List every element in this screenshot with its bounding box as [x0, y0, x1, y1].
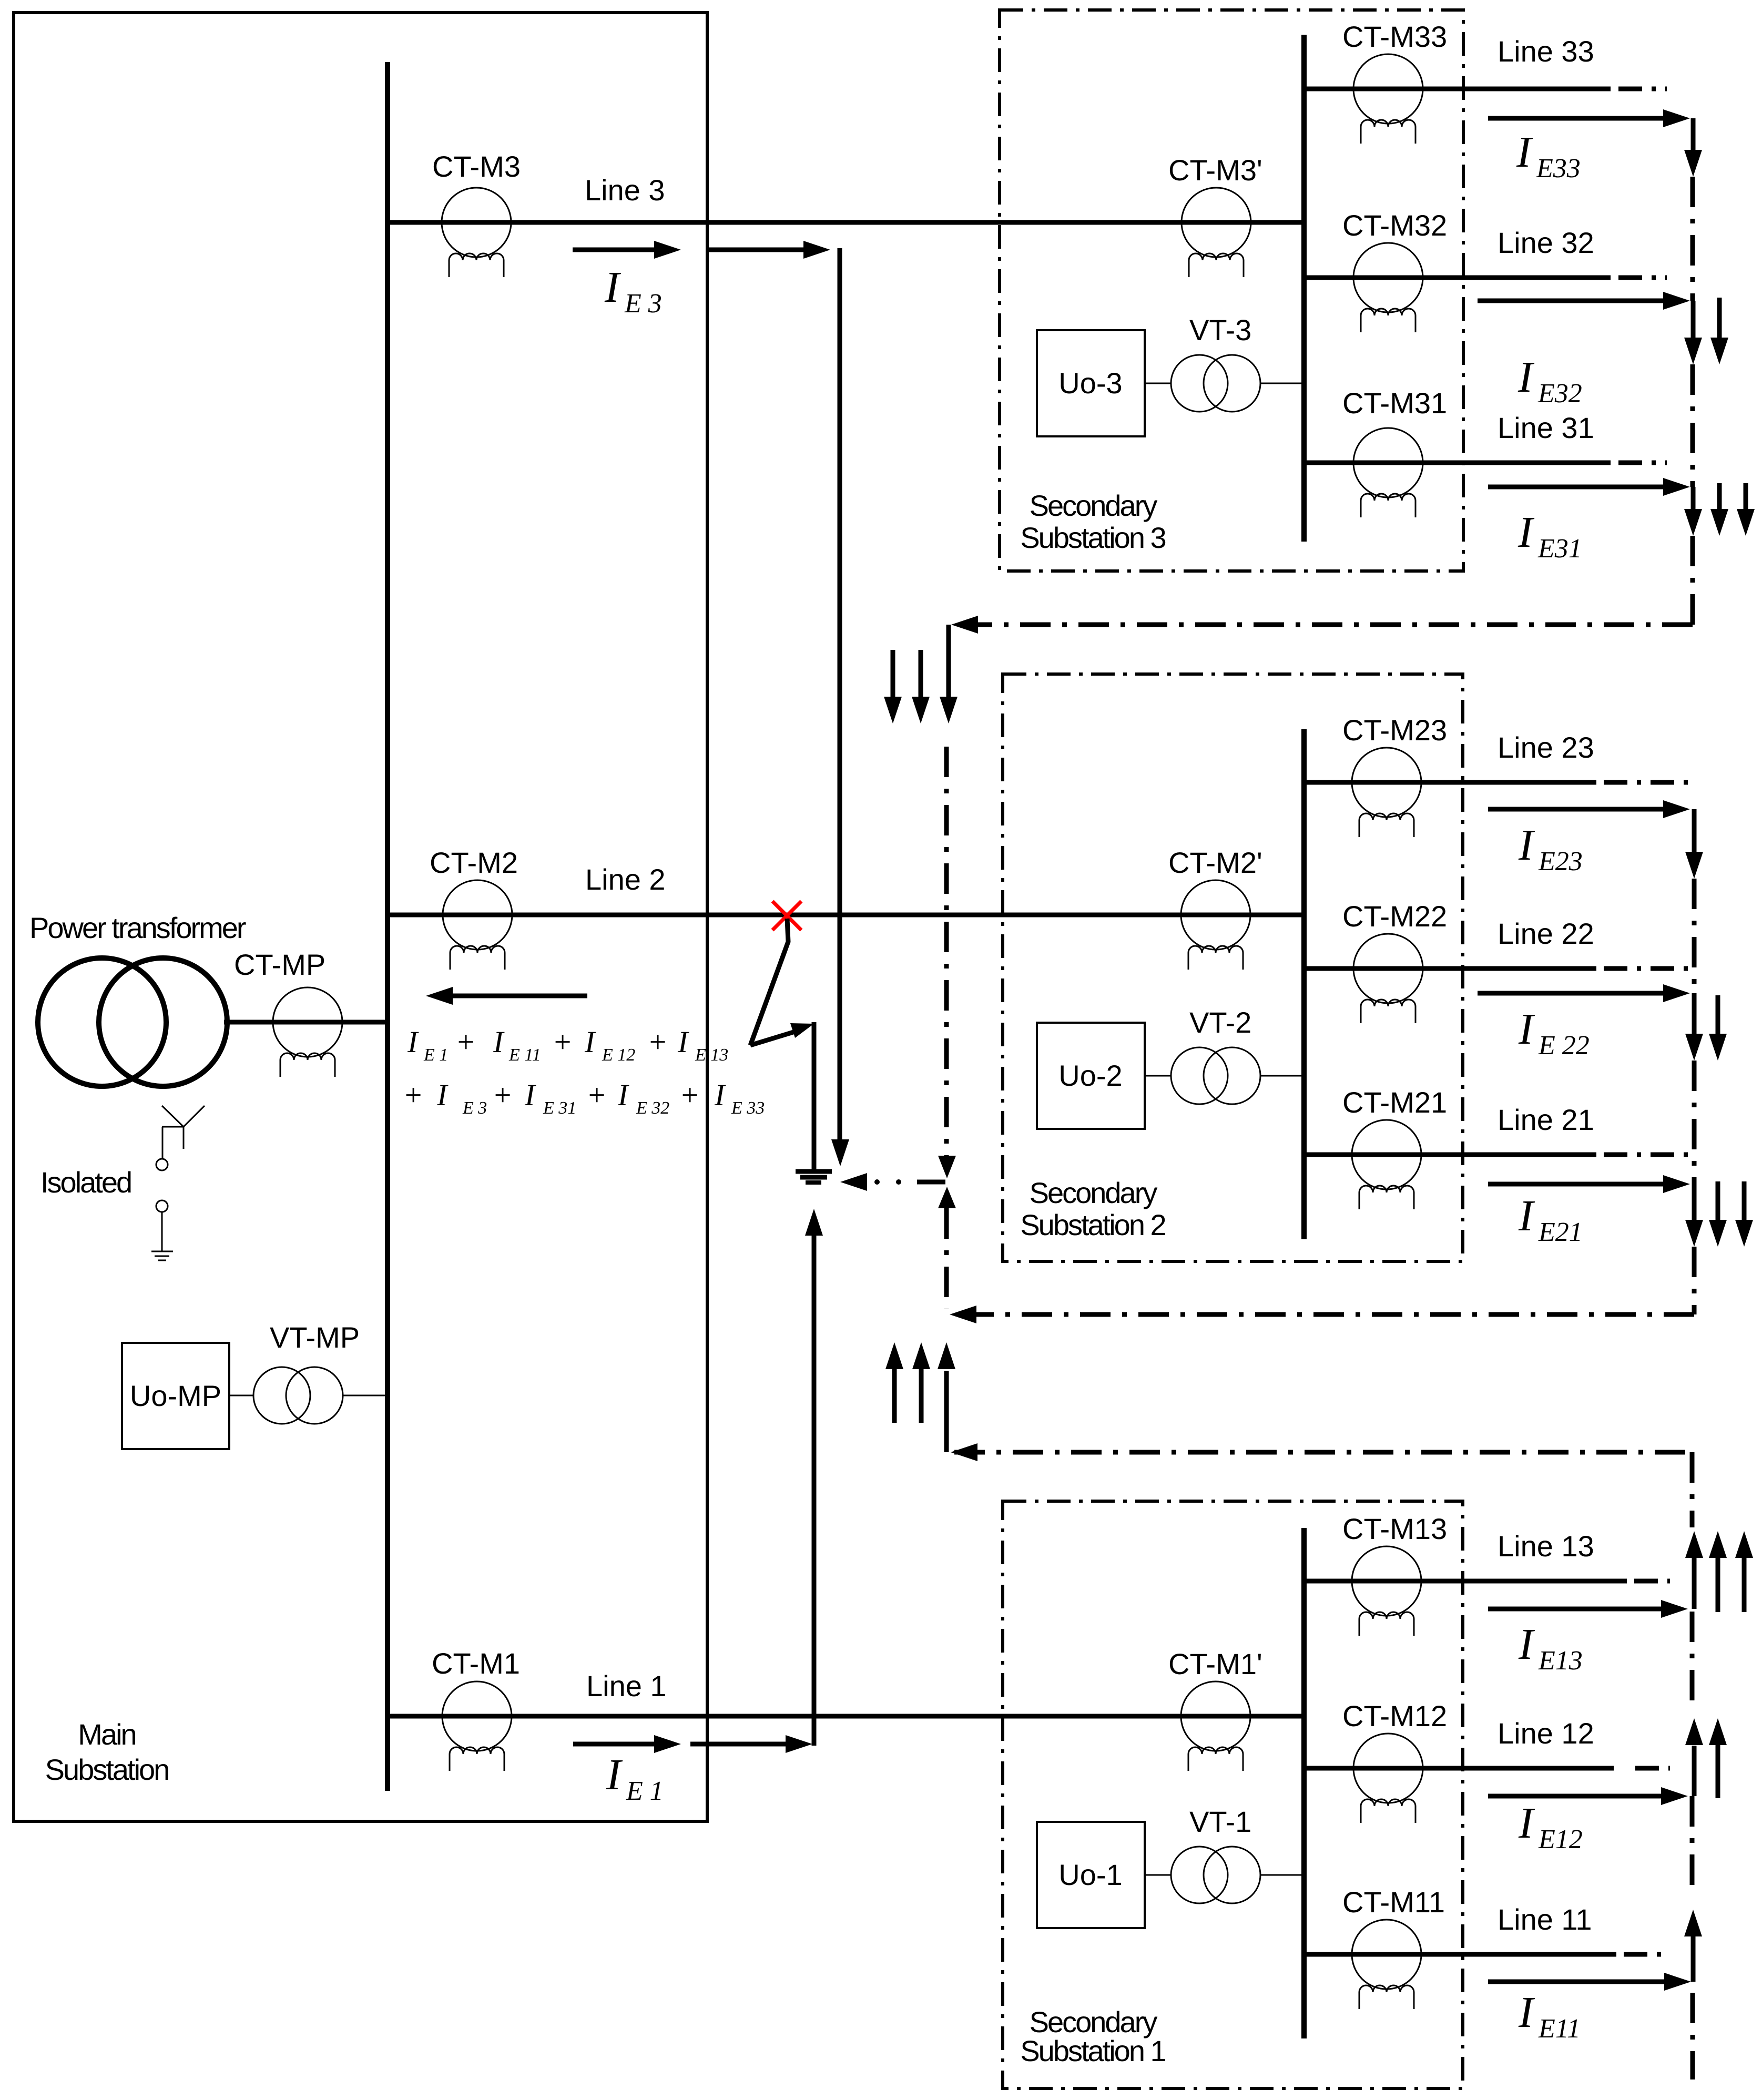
arrow IE31	[1488, 478, 1690, 496]
current transformer CT-M2prime	[1181, 880, 1250, 970]
label VT-MP	[270, 1321, 360, 1354]
Line 22 dash-dot tail	[1604, 966, 1692, 971]
current transformer CT-M23	[1352, 748, 1421, 837]
Line 22 wire	[1304, 966, 1596, 971]
svg-text:CT-M3: CT-M3	[432, 150, 521, 183]
label CT-M33	[1342, 20, 1447, 53]
Line 12 dash-dot tail	[1635, 1766, 1670, 1771]
bundle arrow down beside IE22	[1709, 995, 1727, 1061]
label CT-M23	[1342, 713, 1447, 747]
busbar secondary substation 1	[1301, 1528, 1307, 2038]
label IE31	[1517, 508, 1582, 564]
wire return path from Line 3 down to earth	[838, 248, 842, 1141]
svg-text:Secondary: Secondary	[1030, 489, 1158, 522]
label IE32	[1517, 353, 1582, 409]
svg-text:Main: Main	[78, 1718, 135, 1751]
voltage transformer VT-1	[1171, 1847, 1260, 1903]
current transformer CT-M12	[1353, 1734, 1423, 1823]
svg-text:Line 2: Line 2	[585, 863, 666, 896]
junction arrows at earth (from above and below)	[938, 1156, 956, 1208]
svg-text:Uo-1: Uo-1	[1058, 1858, 1122, 1891]
svg-text:Substation 2: Substation 2	[1020, 1208, 1165, 1241]
Line 33 wire	[1304, 87, 1611, 91]
svg-text:CT-M2: CT-M2	[430, 846, 518, 879]
arrow return current down at IE21 junction	[1685, 1184, 1703, 1247]
svg-text:Uo-3: Uo-3	[1058, 366, 1122, 400]
svg-text:Uo-2: Uo-2	[1058, 1059, 1122, 1092]
wire earth junction to ground	[874, 1179, 945, 1185]
label Secondary Substation 1	[1020, 2005, 1165, 2067]
voltage relay box Uo-MP	[122, 1343, 229, 1449]
Line 11 dash-dot tail	[1624, 1952, 1670, 1957]
arrow return current down at IE32 junction	[1684, 301, 1702, 364]
fault arc from Line 2 to earth	[750, 919, 814, 1045]
label VT-2	[1189, 1006, 1251, 1039]
arrow return current down at IE22 junction	[1685, 993, 1703, 1061]
bundle arrows down beside IE31	[1710, 483, 1755, 536]
arrow IE1 on Line 1	[573, 1735, 681, 1753]
dash-dot return wire right of SS3 lower	[1690, 536, 1695, 625]
Line 23 dash-dot tail	[1604, 780, 1694, 785]
svg-text:VT-3: VT-3	[1189, 313, 1251, 346]
bundle arrow down beside IE32	[1710, 298, 1728, 364]
voltage transformer VT-MP	[253, 1367, 343, 1424]
arrow return current into earth from Line 3 side	[831, 1139, 849, 1166]
dash-dot return wire below IE11	[1690, 1993, 1695, 2079]
arrow IE21	[1488, 1175, 1690, 1193]
current transformer CT-M32	[1353, 243, 1423, 332]
svg-text:Line 33: Line 33	[1498, 35, 1594, 68]
fault mark X on Line 2	[772, 901, 801, 930]
label Line 23	[1498, 731, 1594, 764]
arrow return current up at IE12 junction	[1685, 1718, 1703, 1796]
arrow Line 3 fault current to return wire	[707, 241, 830, 259]
svg-text:Uo-MP: Uo-MP	[130, 1379, 221, 1412]
Line 23 wire	[1304, 780, 1596, 785]
wire VT-MP to busbar	[343, 1395, 388, 1396]
current transformer CT-M2	[443, 880, 512, 970]
label CT-M1prime	[1168, 1647, 1262, 1680]
svg-text:Substation: Substation	[45, 1753, 169, 1786]
label CT-M21	[1342, 1086, 1447, 1119]
arrow IE11	[1488, 1973, 1691, 1991]
voltage relay box Uo-2	[1037, 1023, 1145, 1129]
label CT-M3prime	[1168, 154, 1262, 187]
label IE13	[1518, 1620, 1583, 1676]
wire fault arrow to earth electrode	[812, 1022, 817, 1169]
Line 21 dash-dot tail	[1604, 1153, 1694, 1157]
current transformer CT-M33	[1353, 54, 1423, 144]
label Line 13	[1498, 1530, 1594, 1563]
arrow IE13	[1488, 1600, 1688, 1618]
voltage relay box Uo-3	[1037, 330, 1145, 436]
svg-text:CT-M21: CT-M21	[1342, 1086, 1447, 1119]
label Line 12	[1498, 1717, 1594, 1750]
arrow IE33	[1488, 109, 1690, 127]
bundle arrows up beside IE13	[1709, 1531, 1753, 1612]
label IE3	[604, 263, 662, 319]
Line 3 wire	[388, 220, 1304, 225]
busbar secondary substation 3	[1301, 35, 1307, 542]
label CT-M1	[432, 1647, 520, 1680]
label CT-M31	[1342, 386, 1447, 420]
dash-dot return wire right of SS1 lower	[1690, 1796, 1695, 1893]
wire Uo-2 to VT-2	[1145, 1075, 1171, 1077]
Line 1 wire	[388, 1714, 1304, 1719]
arrow IE12	[1488, 1787, 1688, 1805]
wire Uo-3 to VT-3	[1145, 383, 1171, 384]
voltage transformer VT-3	[1171, 355, 1260, 412]
arrow return current up at IE13 junction	[1685, 1531, 1703, 1609]
svg-text:Substation 3: Substation 3	[1020, 521, 1165, 554]
arrow SS3 return down to earth	[940, 697, 958, 723]
Line 33 dash-dot tail	[1618, 87, 1667, 91]
Line 13 wire	[1304, 1579, 1627, 1584]
label Secondary Substation 2	[1020, 1176, 1165, 1241]
current transformer CT-MP	[273, 987, 342, 1077]
current transformer CT-M22	[1353, 934, 1423, 1023]
dash-dot return wire right of SS2 lower	[1692, 1247, 1697, 1314]
label IE1	[606, 1750, 664, 1806]
label VT-1	[1189, 1805, 1251, 1838]
arrow IE22	[1478, 984, 1690, 1002]
isolated neutral switch symbol	[156, 1106, 205, 1251]
svg-text:Secondary: Secondary	[1030, 2005, 1158, 2038]
arrow IE32	[1478, 292, 1690, 310]
svg-text:Line 1: Line 1	[586, 1669, 667, 1703]
dash-dot return loop top of SS1	[954, 1450, 1692, 1455]
arrow IE33 corner down	[1684, 118, 1702, 177]
dash-dot return loop bottom of SS2	[954, 1312, 1694, 1317]
power transformer	[38, 958, 227, 1086]
bundle arrows up toward earth	[885, 1342, 930, 1423]
arrow return current into fault ground	[840, 1173, 867, 1191]
arrow collector current up toward earth	[938, 1342, 955, 1452]
current transformer CT-M31	[1353, 428, 1423, 517]
svg-text:CT-M22: CT-M22	[1342, 900, 1447, 933]
current transformer CT-M1prime	[1181, 1681, 1250, 1771]
label CT-M22	[1342, 900, 1447, 933]
secondary substation 1 enclosure box	[1003, 1501, 1463, 2088]
arrow return current down at IE23 junction	[1685, 809, 1703, 879]
label Line 22	[1498, 917, 1594, 950]
svg-text:Line 23: Line 23	[1498, 731, 1594, 764]
ground (fault earthing point)	[796, 1171, 832, 1182]
label Line 21	[1498, 1103, 1594, 1136]
arrow Line 1 fault current to return wire	[690, 1735, 812, 1753]
svg-text:Isolated: Isolated	[40, 1166, 131, 1199]
arrow return current up to earth from Line 1 side	[805, 1209, 823, 1236]
wire VT-3 to busbar 3	[1260, 383, 1304, 384]
svg-text:CT-M33: CT-M33	[1342, 20, 1447, 53]
label sum formula line 2	[403, 1078, 765, 1118]
wire SS3 loop corner down	[946, 625, 951, 699]
svg-text:VT-MP: VT-MP	[270, 1321, 360, 1354]
ground (isolated neutral)	[151, 1251, 173, 1260]
current transformer CT-M21	[1352, 1120, 1421, 1209]
arrow IE3 on Line 3	[573, 241, 681, 259]
wire transformer to busbar	[224, 1020, 388, 1025]
secondary substation 2 enclosure box	[1003, 674, 1463, 1261]
svg-text:Line 21: Line 21	[1498, 1103, 1594, 1136]
svg-text:Power transformer: Power transformer	[29, 911, 246, 944]
dash-dot collector wire earth to SS2 junction	[944, 1208, 949, 1309]
label Line 2	[585, 863, 666, 896]
arrow SS1 return into collector	[951, 1443, 977, 1461]
arrow SS3 return into collector	[951, 616, 978, 634]
bundle arrows down toward earth	[884, 650, 930, 723]
bundle arrow up beside IE12	[1709, 1718, 1727, 1798]
label CT-M3	[432, 150, 521, 183]
label Line 3	[585, 174, 665, 207]
voltage transformer VT-2	[1171, 1047, 1260, 1104]
current transformer CT-M3prime	[1182, 188, 1251, 277]
label IE23	[1518, 821, 1583, 876]
svg-text:CT-M1': CT-M1'	[1168, 1647, 1262, 1680]
label CT-M2prime	[1168, 846, 1262, 879]
svg-text:CT-M13: CT-M13	[1342, 1512, 1447, 1545]
svg-text:Line 3: Line 3	[585, 174, 665, 207]
svg-text:CT-M11: CT-M11	[1342, 1885, 1445, 1919]
svg-text:IE 1+IE 11+IE 12+IE 13: IE 1+IE 11+IE 12+IE 13	[407, 1025, 728, 1065]
label CT-M12	[1342, 1699, 1447, 1732]
svg-text:CT-M23: CT-M23	[1342, 713, 1447, 747]
voltage relay box Uo-1	[1037, 1822, 1145, 1928]
svg-text:Line 13: Line 13	[1498, 1530, 1594, 1563]
dash-dot return loop bottom of SS3	[954, 623, 1693, 627]
svg-text:CT-M3': CT-M3'	[1168, 154, 1262, 187]
label Line 33	[1498, 35, 1594, 68]
busbar main substation	[385, 62, 390, 1791]
busbar secondary substation 2	[1301, 729, 1307, 1239]
dash-dot collector wire down to earth junction	[944, 747, 949, 1156]
svg-text:Line 22: Line 22	[1498, 917, 1594, 950]
svg-text:Line 12: Line 12	[1498, 1717, 1594, 1750]
label IE22	[1518, 1005, 1590, 1061]
current transformer CT-M1	[442, 1681, 512, 1771]
svg-text:CT-M32: CT-M32	[1342, 209, 1447, 242]
svg-text:Line 32: Line 32	[1498, 226, 1594, 259]
Line 2 wire	[388, 913, 1304, 918]
dash-dot return wire right of SS1 upper	[1690, 1612, 1695, 1711]
wire return path from earth down to Line 1	[812, 1236, 817, 1746]
dash-dot return wire right of SS2 upper	[1692, 879, 1697, 993]
arrow sum current into CT-MP (Line 2)	[426, 987, 587, 1005]
label Line 1	[586, 1669, 667, 1703]
wire Uo-MP to VT-MP	[229, 1395, 253, 1396]
label CT-MP	[234, 948, 325, 981]
label CT-M13	[1342, 1512, 1447, 1545]
current transformer CT-M3	[442, 188, 511, 277]
label Main Substation	[45, 1718, 169, 1786]
label CT-M32	[1342, 209, 1447, 242]
svg-text:CT-M12: CT-M12	[1342, 1699, 1447, 1732]
current transformer CT-M13	[1352, 1546, 1421, 1636]
secondary substation 3 enclosure box	[1000, 10, 1463, 571]
label Line 11	[1498, 1903, 1592, 1936]
Line 31 wire	[1304, 461, 1611, 465]
svg-text:Secondary: Secondary	[1030, 1176, 1158, 1209]
main substation enclosure box	[14, 13, 707, 1821]
Line 21 wire	[1304, 1153, 1596, 1157]
dash-dot return wire right of SS3 middle	[1690, 364, 1695, 487]
Line 12 wire	[1304, 1766, 1614, 1771]
label IE12	[1518, 1799, 1583, 1854]
arrow return current down at IE31 junction	[1684, 487, 1702, 536]
wire Uo-1 to VT-1	[1145, 1874, 1171, 1876]
label VT-3	[1189, 313, 1251, 346]
svg-text:CT-M31: CT-M31	[1342, 386, 1447, 420]
wire VT-2 to busbar 2	[1260, 1075, 1304, 1077]
Line 11 wire	[1304, 1952, 1616, 1957]
svg-text:VT-1: VT-1	[1189, 1805, 1251, 1838]
label CT-M2	[430, 846, 518, 879]
label Secondary Substation 3	[1020, 489, 1165, 554]
label Line 32	[1498, 226, 1594, 259]
Line 32 wire	[1304, 276, 1611, 280]
dash-dot return wire right of SS3 upper	[1690, 177, 1695, 301]
svg-text:CT-MP: CT-MP	[234, 948, 325, 981]
Line 13 dash-dot tail	[1634, 1579, 1670, 1584]
svg-text:CT-M1: CT-M1	[432, 1647, 520, 1680]
label CT-M11	[1342, 1885, 1445, 1919]
wire VT-1 to busbar 1	[1260, 1874, 1304, 1876]
arrow IE23	[1488, 800, 1690, 818]
arrow SS2 return into collector	[950, 1306, 976, 1323]
label IE21	[1518, 1191, 1583, 1247]
label Line 31	[1498, 411, 1594, 444]
dash-dot return wire right of SS2 middle	[1692, 1061, 1697, 1184]
svg-text:CT-M2': CT-M2'	[1168, 846, 1262, 879]
label IE33	[1516, 128, 1581, 184]
svg-text:VT-2: VT-2	[1189, 1006, 1251, 1039]
dash-dot return wire right of SS1 top corner	[1690, 1452, 1695, 1527]
svg-text:Line 31: Line 31	[1498, 411, 1594, 444]
Line 32 dash-dot tail	[1618, 276, 1667, 280]
Line 31 dash-dot tail	[1618, 461, 1667, 465]
svg-text:Substation 1: Substation 1	[1020, 2034, 1165, 2067]
arrow return current up at IE11 junction	[1684, 1910, 1702, 1982]
current transformer CT-M11	[1352, 1920, 1421, 2009]
label sum formula line 1	[407, 1025, 728, 1065]
label Isolated	[40, 1166, 131, 1199]
bundle arrows down beside IE21	[1709, 1181, 1753, 1247]
label IE11	[1518, 1988, 1581, 2044]
label Power transformer	[29, 911, 246, 944]
svg-text:Line 11: Line 11	[1498, 1903, 1592, 1936]
